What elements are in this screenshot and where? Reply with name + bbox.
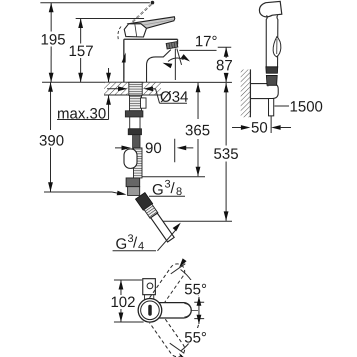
svg-text:G: G — [152, 181, 164, 198]
svg-text:Ø34: Ø34 — [160, 89, 188, 106]
svg-text:195: 195 — [41, 31, 66, 48]
svg-text:1500: 1500 — [290, 99, 323, 116]
svg-text:50: 50 — [251, 120, 268, 137]
svg-text:102: 102 — [110, 294, 135, 311]
svg-text:55°: 55° — [184, 281, 207, 298]
svg-text:390: 390 — [39, 132, 64, 149]
svg-text:G: G — [115, 236, 127, 253]
svg-text:365: 365 — [185, 122, 210, 139]
svg-text:/: / — [170, 180, 175, 197]
svg-text:87: 87 — [216, 57, 233, 74]
svg-text:90: 90 — [145, 140, 162, 157]
svg-text:8: 8 — [176, 186, 182, 198]
svg-text:535: 535 — [214, 146, 239, 163]
svg-text:max.30: max.30 — [57, 105, 106, 122]
svg-text:55°: 55° — [184, 330, 207, 347]
svg-text:157: 157 — [69, 43, 94, 60]
svg-text:17°: 17° — [195, 33, 218, 50]
svg-text:4: 4 — [138, 240, 144, 252]
